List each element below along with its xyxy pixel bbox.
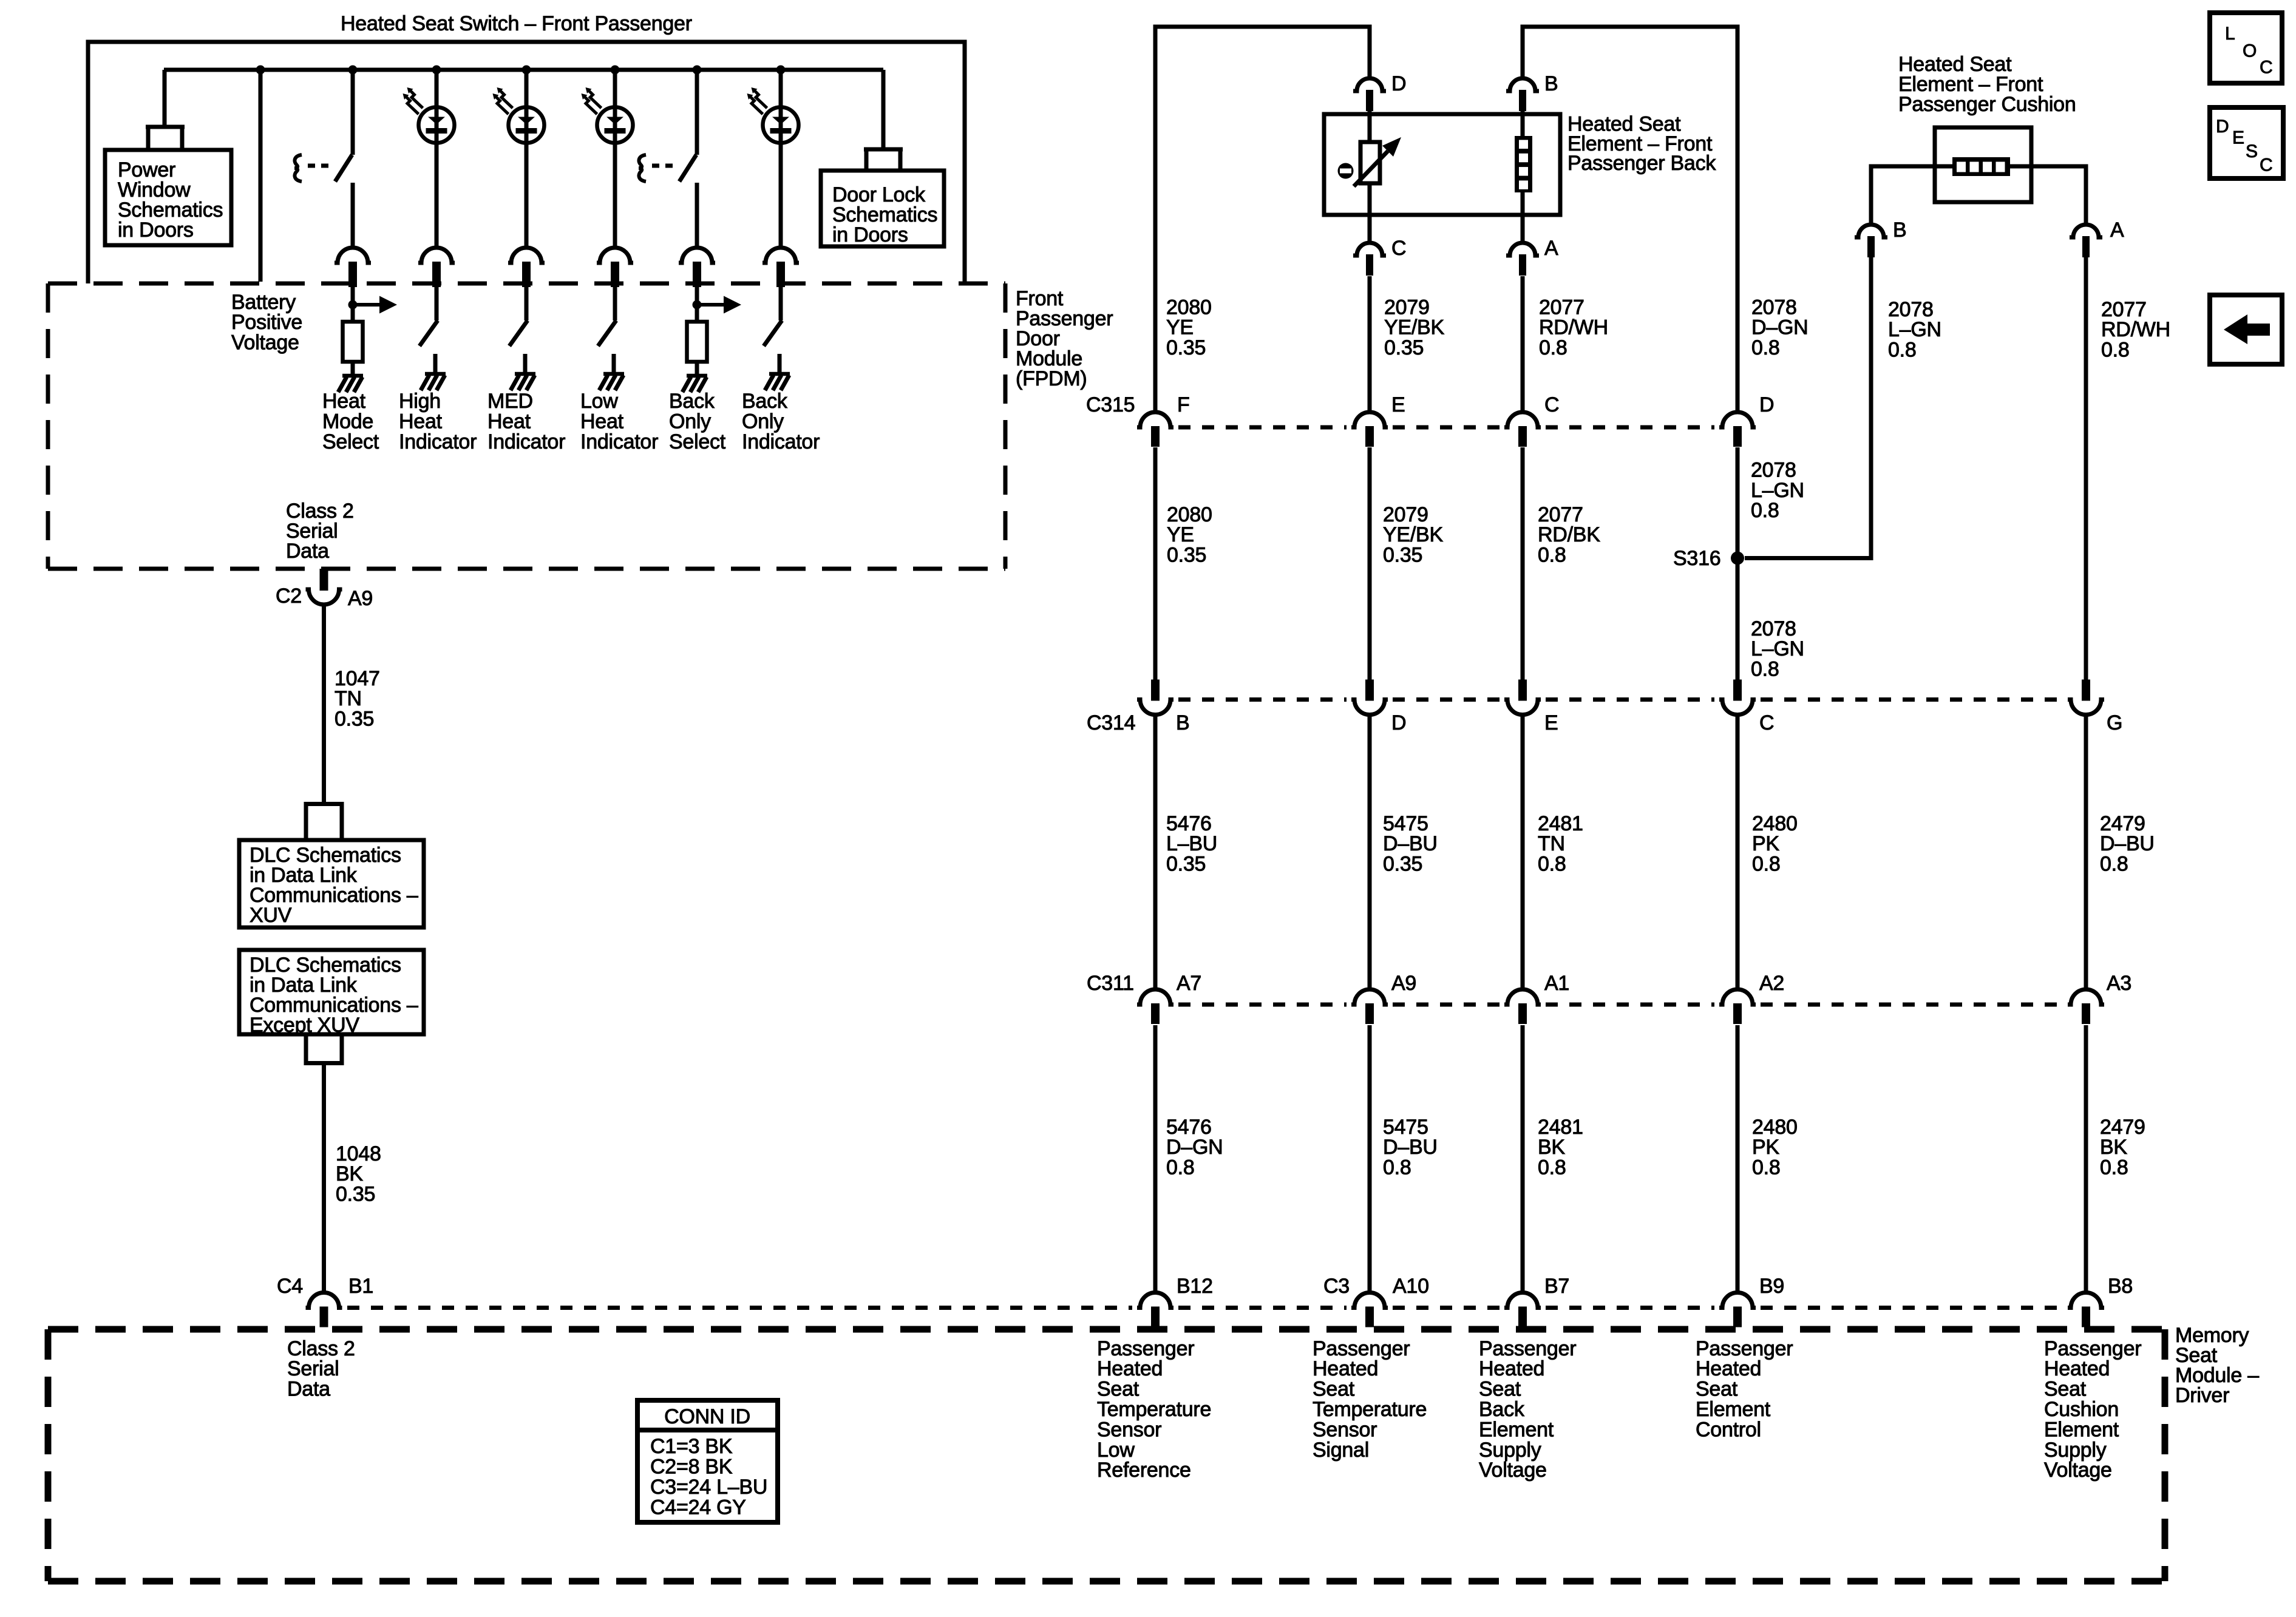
svg-text:1048: 1048 [336,1142,381,1165]
svg-text:D–GN: D–GN [1751,316,1808,339]
connector C314 C [1719,680,1756,715]
svg-text:C315: C315 [1086,393,1135,416]
svg-text:Element: Element [2044,1418,2119,1441]
svg-text:Element: Element [1479,1418,1554,1441]
svg-text:2078: 2078 [1751,458,1796,481]
label C4 [277,1275,303,1298]
svg-text:(FPDM): (FPDM) [1016,367,1087,390]
illumination arrows back only indicator [747,87,767,114]
arrow reference box [2210,295,2282,364]
connector pin back only select [679,248,715,287]
label class 2 serial data upper [286,500,354,563]
svg-text:B9: B9 [1759,1275,1784,1298]
svg-text:5475: 5475 [1383,812,1428,835]
wire 2481 row4 [1521,1025,1525,1293]
label wire 2077 RD/WH cushion [2101,298,2170,362]
svg-text:Indicator: Indicator [399,430,477,453]
wire 2480 row4 [1736,1025,1740,1293]
svg-text:0.8: 0.8 [1752,853,1781,876]
mechanical link back only select [639,155,673,181]
wire heat mode select below module line [351,286,355,322]
wire battery positive voltage [259,70,263,282]
DESC reference box [2210,107,2283,178]
connector B12 [1137,1293,1173,1327]
LED MED heat indicator [509,107,545,143]
svg-text:2078: 2078 [1751,296,1797,319]
label pin A3 [2107,972,2131,995]
svg-text:C2=8 BK: C2=8 BK [650,1455,733,1478]
svg-text:Voltage: Voltage [1479,1459,1547,1482]
wire back only indicator through LED [779,107,783,143]
dashed wire C311 row [1178,1003,2063,1007]
wire 5475 row3 [1368,714,1372,990]
connector A heated seat back [1506,243,1539,276]
dashed wire C315 row [1178,425,1714,430]
label conn id header [664,1405,750,1428]
svg-text:Voltage: Voltage [231,331,299,354]
svg-text:2479: 2479 [2100,1116,2145,1139]
connector D heated seat back [1353,78,1386,111]
wire heater to connector A [1521,192,1525,243]
svg-text:L–BU: L–BU [1166,832,1217,855]
wire back only indicator lower [779,143,783,248]
svg-text:B12: B12 [1177,1275,1213,1298]
svg-text:2077: 2077 [1539,296,1584,319]
wire MED heat indicator through LED [525,107,529,143]
svg-text:A: A [2110,219,2124,242]
ground stub back only indicator [778,354,782,372]
label C2 [276,585,302,608]
label door lock schematics [832,183,937,246]
label pin B [1544,72,1558,95]
connector C311 A1 [1504,989,1541,1024]
label DLC schematics except XUV [250,954,418,1037]
svg-text:YE: YE [1167,523,1194,546]
svg-text:0.8: 0.8 [1538,853,1566,876]
svg-text:A9: A9 [1391,972,1416,995]
ground high heat indicator [421,374,446,390]
svg-text:C4=24 GY: C4=24 GY [650,1496,746,1519]
wire 2078 S316 to C314 [1736,558,1740,682]
svg-text:Sensor: Sensor [1313,1418,1377,1441]
svg-text:C: C [1544,393,1559,416]
svg-text:Mode: Mode [322,410,373,433]
svg-text:Indicator: Indicator [487,430,565,453]
svg-text:0.8: 0.8 [1888,339,1917,362]
wire back only select upper [695,70,699,155]
label pin D C315 [1759,393,1774,416]
label wire 2479 BK [2100,1116,2145,1179]
label pin A1 [1544,972,1569,995]
svg-text:Heat: Heat [322,390,366,413]
connector B cushion [1855,225,1887,257]
svg-text:L–GN: L–GN [1888,318,1941,341]
ground stub MED heat indicator [523,354,528,372]
label pin E C315 [1391,393,1405,416]
svg-text:G: G [2107,711,2122,734]
label passenger heated seat temp sensor signal [1313,1337,1427,1462]
svg-text:TN: TN [335,687,362,710]
wire 5475 row4 [1368,1025,1372,1293]
ground heat mode select [338,376,363,392]
svg-text:Heat: Heat [487,410,531,433]
wire 2479 row4 [2084,1025,2088,1293]
svg-text:D–BU: D–BU [1383,832,1438,855]
label passenger heated seat element control [1696,1337,1793,1442]
svg-text:Passenger: Passenger [1313,1337,1410,1360]
switch blade low heat indicator [598,320,616,346]
label passenger heated seat back element supply [1479,1337,1576,1482]
svg-text:D: D [2216,117,2229,137]
label C3 [1323,1275,1350,1298]
svg-text:Control: Control [1696,1418,1761,1441]
svg-text:E: E [2232,127,2244,147]
wire 5476 row3 [1153,714,1158,990]
svg-text:0.35: 0.35 [335,708,374,731]
label pin E C314 [1544,711,1558,734]
connector C315 C [1504,412,1541,447]
svg-text:O: O [2243,41,2257,61]
junction dot low heat indicator branch [611,66,620,75]
svg-text:0.8: 0.8 [1751,336,1780,359]
label pin B7 [1544,1275,1569,1298]
label wire 2077 RD/BK row2 [1538,503,1600,567]
label conn id rows [650,1435,767,1519]
label pin B12 [1177,1275,1213,1298]
label pin A10 [1393,1275,1429,1298]
label pin B8 [2108,1275,2133,1298]
svg-text:0.8: 0.8 [1538,544,1566,567]
label pin A [1544,237,1558,260]
label pin F [1177,393,1190,416]
svg-text:Data: Data [287,1378,330,1401]
label passenger heated seat temp sensor low ref [1097,1337,1211,1482]
svg-text:BK: BK [1538,1136,1565,1159]
label pin A9 [1391,972,1416,995]
wire 2481 row3 [1521,714,1525,990]
wire top loop thermistor to column F [1155,27,1370,412]
wire heat mode select lower [351,183,355,248]
switch blade high heat indicator [419,320,438,346]
label wire 2078 L-GN cushion [1888,298,1941,362]
svg-text:Only: Only [742,410,784,433]
wire 2077 RD/WH cushion A [2084,257,2088,681]
svg-text:E: E [1391,393,1405,416]
connector tab door lock box [864,149,903,172]
label S316 [1673,547,1720,570]
svg-text:Voltage: Voltage [2044,1459,2112,1482]
svg-text:C2: C2 [276,585,302,608]
label front passenger door module [1016,287,1113,390]
label pin C C314 [1759,711,1774,734]
svg-text:PK: PK [1752,1136,1779,1159]
svg-text:RD/BK: RD/BK [1538,523,1600,546]
svg-text:0.8: 0.8 [2101,339,2130,362]
label wire 2481 BK [1538,1116,1583,1179]
svg-text:2077: 2077 [2101,298,2147,321]
wire 2078 L-GN cushion B [1745,257,1871,558]
label MED heat indicator [487,390,565,453]
wire drop to door lock tab [881,70,886,147]
svg-text:Sensor: Sensor [1097,1418,1161,1441]
svg-text:Driver: Driver [2175,1384,2229,1407]
svg-text:0.8: 0.8 [1751,658,1779,681]
label wire 2078 D-GN row1 [1751,296,1808,359]
label heated seat element cushion [1898,53,2076,116]
svg-text:2479: 2479 [2100,812,2145,835]
box DLC schematics except XUV [239,950,424,1034]
svg-text:B: B [1893,219,1906,242]
ground stub low heat indicator [612,354,616,372]
thermistor heated seat back [1338,137,1402,186]
svg-text:C: C [2260,155,2272,175]
label heated seat element back [1567,112,1716,174]
label wire 2480 PK row4 [1752,1116,1798,1179]
svg-text:2079: 2079 [1383,503,1428,526]
connector C314 D [1351,680,1388,715]
wire 1047 class 2 serial data [322,603,326,802]
illumination arrows low heat indicator [582,87,602,114]
box heated seat element cushion [1935,127,2031,202]
label pin A7 [1177,972,1201,995]
resistor heat mode select [343,322,363,362]
svg-text:C: C [1391,237,1406,260]
svg-text:Heated: Heated [2044,1357,2110,1380]
svg-text:C314: C314 [1087,711,1135,734]
svg-text:Back: Back [669,390,715,413]
svg-text:Serial: Serial [287,1357,339,1380]
connector pin back only indicator [763,248,799,287]
svg-text:Seat: Seat [1696,1378,1738,1401]
svg-text:Heated: Heated [1696,1357,1761,1380]
svg-text:Supply: Supply [1479,1439,1541,1462]
LOC reference box [2210,13,2282,83]
label wire 2078 L-GN above S316 [1751,458,1804,522]
svg-text:Low: Low [1097,1439,1135,1462]
svg-text:S316: S316 [1673,547,1720,570]
junction dot heat mode sense [348,300,358,310]
mechanical link heat mode select [294,155,328,181]
connector C4 B1 class 2 [306,1293,342,1327]
wire 2078 to S316 [1736,447,1740,558]
svg-text:A10: A10 [1393,1275,1429,1298]
label wire 5475 D-BU row4 [1383,1116,1438,1179]
svg-text:TN: TN [1538,832,1565,855]
label pin D C314 [1391,711,1406,734]
svg-text:YE/BK: YE/BK [1384,316,1444,339]
label back only select [669,390,726,453]
svg-text:Select: Select [669,430,726,453]
svg-text:Element: Element [1696,1398,1771,1421]
svg-text:A2: A2 [1759,972,1784,995]
label heated seat switch title [341,12,692,35]
svg-text:A9: A9 [348,587,373,610]
svg-text:RD/WH: RD/WH [1539,316,1608,339]
connector B7 [1504,1293,1541,1327]
svg-text:0.8: 0.8 [1538,1156,1566,1179]
svg-text:Indicator: Indicator [742,430,820,453]
label wire 1047 TN 0.35 [335,667,380,731]
connector pin F heat mode select [335,248,371,287]
connector bracket below DLC box [304,1032,344,1063]
svg-text:F: F [1177,393,1190,416]
illumination arrows MED heat indicator [493,87,513,114]
dashed wire memory seat module row [347,1306,2063,1310]
svg-text:1047: 1047 [335,667,380,690]
svg-text:2078: 2078 [1888,298,1934,321]
svg-text:2080: 2080 [1166,296,1212,319]
svg-text:A3: A3 [2107,972,2131,995]
junction dot back only select branch [693,66,702,75]
wire back only indicator below module line [779,286,783,320]
svg-text:A7: A7 [1177,972,1201,995]
wire high heat indicator through LED [435,107,439,143]
FPDM module dashed box [48,283,1005,569]
svg-text:Passenger: Passenger [1696,1337,1793,1360]
svg-text:2078: 2078 [1751,617,1796,640]
svg-text:0.35: 0.35 [336,1183,375,1206]
connector B heated seat back [1506,78,1539,111]
svg-text:Seat: Seat [1097,1378,1140,1401]
connector pin low heat indicator [597,248,633,287]
LED back only indicator [763,107,799,143]
svg-text:RD/WH: RD/WH [2101,318,2170,341]
wire heat mode select upper [351,70,355,155]
connector C3 A10 [1351,1293,1388,1327]
label power window schematics [118,158,223,242]
bus wire [164,68,883,72]
label pin B cushion [1893,219,1906,242]
label pin C [1391,237,1406,260]
connector C314 G [2068,680,2104,715]
connector C311 A9 [1351,989,1388,1024]
svg-text:5476: 5476 [1166,812,1212,835]
connector C314 B [1137,680,1173,715]
heated seat switch outer box [88,42,965,283]
svg-text:Only: Only [669,410,711,433]
svg-text:Signal: Signal [1313,1439,1369,1462]
svg-text:MED: MED [487,390,533,413]
svg-text:Indicator: Indicator [580,430,658,453]
label high heat indicator [399,390,477,453]
svg-text:A1: A1 [1544,972,1569,995]
svg-text:D–BU: D–BU [1383,1136,1438,1159]
svg-text:Temperature: Temperature [1097,1398,1211,1421]
svg-text:2481: 2481 [1538,812,1583,835]
wire low heat indicator upper [613,70,617,107]
svg-text:C1=3 BK: C1=3 BK [650,1435,733,1458]
heater element heated seat cushion [1952,157,2010,176]
connector C311 A3 [2068,989,2104,1024]
connector A cushion [2070,225,2102,257]
svg-text:Data: Data [286,540,329,563]
label A9 [348,587,373,610]
label battery positive voltage [231,291,302,354]
junction dot back only indicator branch [776,66,786,75]
wire low heat indicator below module line [613,286,617,320]
splice S316 [1731,552,1744,565]
connector C311 A7 [1137,989,1173,1024]
wire 2479 row3 [2084,714,2088,990]
wire high heat indicator upper [435,70,439,107]
svg-text:0.8: 0.8 [1166,1156,1195,1179]
svg-text:High: High [399,390,441,413]
label C315 [1086,393,1135,416]
connector C315 E [1351,412,1388,447]
svg-text:Passenger: Passenger [2044,1337,2141,1360]
svg-text:S: S [2246,141,2258,161]
label pin G C314 [2107,711,2122,734]
svg-text:0.8: 0.8 [1751,499,1779,522]
connector C315 F [1137,412,1173,447]
svg-text:0.35: 0.35 [1166,336,1206,359]
box heated seat element back [1324,114,1560,215]
connector tab power window box [146,127,185,152]
illumination arrows high heat indicator [403,87,423,114]
box DLC schematics XUV [239,840,424,927]
svg-text:0.8: 0.8 [1752,1156,1781,1179]
svg-text:0.8: 0.8 [2100,853,2128,876]
junction dot high heat indicator branch [432,66,441,75]
junction dot back only sense [693,300,702,310]
dashed wire C314 row [1178,697,2063,702]
svg-text:2079: 2079 [1384,296,1430,319]
memory seat module dashed box [48,1329,2165,1581]
wire MED heat indicator upper [525,70,529,107]
wire high heat indicator below module line [435,286,439,320]
svg-text:Seat: Seat [1313,1378,1355,1401]
LED low heat indicator [597,107,633,143]
switch blade heat mode select [335,155,352,181]
label pin C C315 [1544,393,1559,416]
svg-text:C3: C3 [1323,1275,1350,1298]
label class 2 serial data lower [287,1337,355,1401]
switch blade back only indicator [764,320,782,346]
svg-text:D–GN: D–GN [1166,1136,1223,1159]
heater element heated seat back [1515,136,1532,192]
svg-text:D–BU: D–BU [2100,832,2155,855]
svg-text:B: B [1176,711,1189,734]
arrow heat mode signal [353,296,397,314]
svg-text:5475: 5475 [1383,1116,1428,1139]
svg-text:2481: 2481 [1538,1116,1583,1139]
wire top loop heater to column D [1523,27,1737,412]
box door lock schematics [821,171,944,246]
switch blade MED heat indicator [509,320,528,346]
junction dot battery feed [256,66,265,75]
svg-text:Passenger: Passenger [1479,1337,1576,1360]
connector C315 D [1719,412,1756,447]
label back only indicator [742,390,820,453]
svg-text:XUV: XUV [250,904,292,927]
svg-text:Heated: Heated [1313,1357,1378,1380]
label B1 [348,1275,373,1298]
wire MED heat indicator below module line [525,286,529,320]
resistor back only select [687,322,707,362]
switch blade back only select [679,155,696,181]
label DLC schematics XUV [250,844,418,927]
connector C2 A9 [306,569,342,605]
wire cushion element right lead [2010,166,2086,225]
svg-text:Heat: Heat [399,410,443,433]
svg-text:Passenger Back: Passenger Back [1567,152,1716,175]
LED high heat indicator [419,107,455,143]
svg-text:YE/BK: YE/BK [1383,523,1443,546]
label wire 5476 D-GN [1166,1116,1223,1179]
svg-text:Heated: Heated [1479,1357,1544,1380]
label wire 2079 YE/BK row1 [1384,296,1444,359]
svg-text:D: D [1391,72,1406,95]
